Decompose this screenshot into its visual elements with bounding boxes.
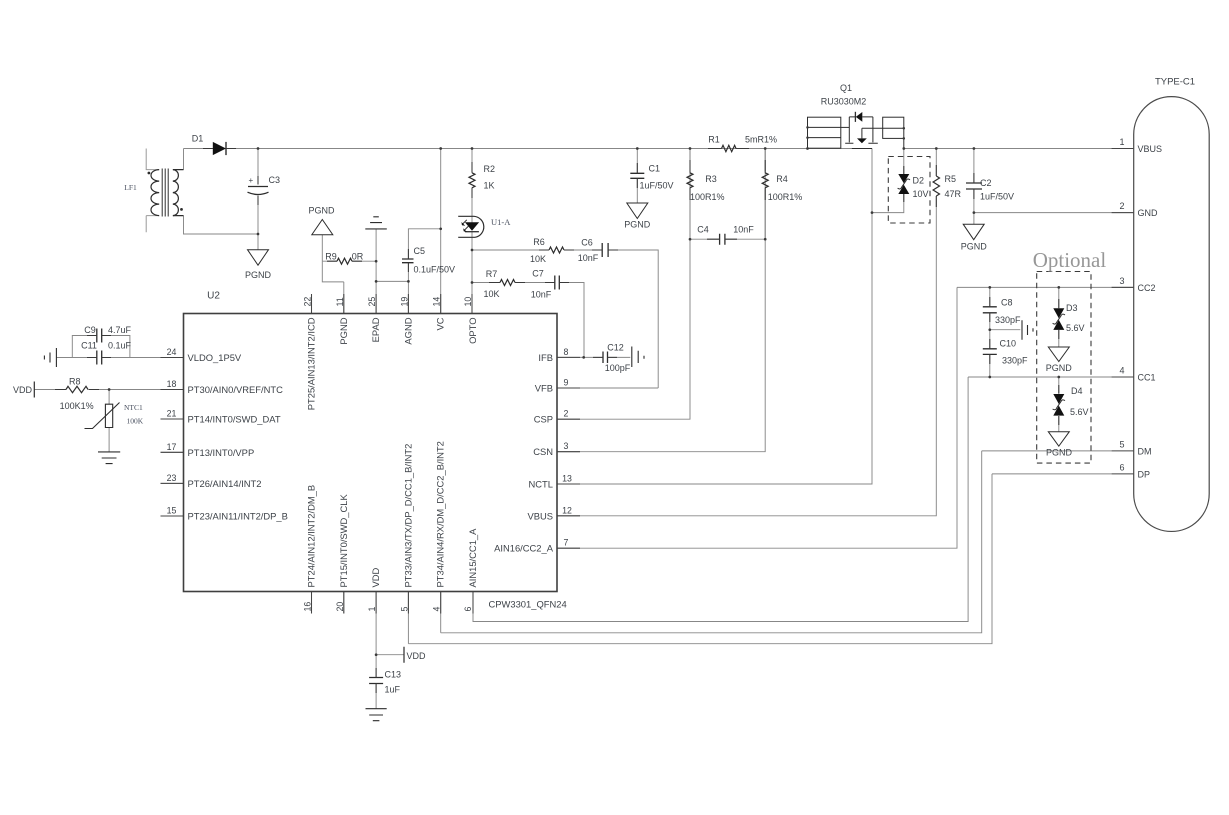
svg-text:8: 8: [564, 347, 569, 357]
svg-text:C8: C8: [1001, 298, 1013, 308]
svg-text:PT30/AIN0/VREF/NTC: PT30/AIN0/VREF/NTC: [188, 384, 284, 395]
svg-text:AGND: AGND: [402, 317, 413, 344]
svg-text:AIN16/CC2_A: AIN16/CC2_A: [494, 543, 554, 554]
svg-text:VDD: VDD: [13, 385, 33, 395]
svg-text:47R: 47R: [945, 189, 962, 199]
svg-text:CC1: CC1: [1138, 373, 1156, 383]
svg-text:Q1: Q1: [840, 83, 852, 93]
svg-text:PT26/AIN14/INT2: PT26/AIN14/INT2: [188, 478, 262, 489]
svg-text:5mR1%: 5mR1%: [745, 135, 777, 145]
svg-text:18: 18: [167, 379, 177, 389]
svg-text:NCTL: NCTL: [529, 479, 553, 490]
svg-text:1uF/50V: 1uF/50V: [640, 181, 674, 191]
svg-text:C2: C2: [980, 178, 992, 188]
svg-text:PGND: PGND: [308, 206, 335, 216]
svg-text:IFB: IFB: [538, 352, 553, 363]
svg-text:10K: 10K: [530, 254, 546, 264]
svg-text:D2: D2: [913, 176, 925, 186]
svg-text:R5: R5: [945, 174, 957, 184]
svg-text:10nF: 10nF: [733, 225, 754, 235]
svg-text:CSP: CSP: [534, 414, 553, 425]
svg-text:D1: D1: [192, 134, 204, 144]
svg-text:R1: R1: [708, 135, 720, 145]
svg-text:D4: D4: [1071, 386, 1083, 396]
svg-text:PT34/AIN4/RX/DM_D/CC2_B/INT2: PT34/AIN4/RX/DM_D/CC2_B/INT2: [435, 441, 446, 587]
svg-text:100R1%: 100R1%: [690, 192, 725, 202]
svg-text:LF1: LF1: [124, 183, 137, 192]
svg-text:C9: C9: [84, 325, 96, 335]
svg-text:330pF: 330pF: [995, 315, 1021, 325]
svg-text:20: 20: [335, 602, 345, 612]
svg-text:PT14/INT0/SWD_DAT: PT14/INT0/SWD_DAT: [188, 414, 281, 425]
svg-text:10K: 10K: [483, 289, 499, 299]
svg-text:4: 4: [1119, 366, 1124, 376]
svg-text:23: 23: [167, 473, 177, 483]
svg-text:16: 16: [303, 602, 313, 612]
svg-text:VDD: VDD: [407, 651, 427, 661]
svg-text:21: 21: [167, 409, 177, 419]
svg-text:C1: C1: [649, 164, 661, 174]
svg-text:PGND: PGND: [1046, 363, 1073, 373]
svg-text:1uF/50V: 1uF/50V: [980, 192, 1014, 202]
svg-text:R2: R2: [484, 164, 496, 174]
svg-text:C7: C7: [532, 269, 544, 279]
svg-text:10V: 10V: [913, 189, 929, 199]
svg-text:100K1%: 100K1%: [60, 401, 94, 411]
svg-text:PGND: PGND: [624, 220, 651, 230]
svg-text:R4: R4: [776, 174, 788, 184]
svg-text:PT33/AIN3/TX/DP_D/CC1_B/INT2: PT33/AIN3/TX/DP_D/CC1_B/INT2: [402, 444, 413, 588]
svg-text:Optional: Optional: [1033, 248, 1107, 272]
svg-text:0R: 0R: [352, 251, 364, 261]
svg-text:OPTO: OPTO: [467, 318, 478, 344]
svg-text:VBUS: VBUS: [1138, 144, 1163, 154]
svg-text:PGND: PGND: [338, 317, 349, 344]
svg-text:5: 5: [399, 607, 409, 612]
svg-text:PT13/INT0/VPP: PT13/INT0/VPP: [188, 447, 255, 458]
svg-text:DP: DP: [1138, 469, 1151, 479]
svg-text:TYPE-C1: TYPE-C1: [1155, 77, 1195, 88]
svg-text:0.1uF/50V: 0.1uF/50V: [414, 265, 456, 275]
svg-text:R3: R3: [705, 174, 717, 184]
svg-text:C6: C6: [581, 238, 593, 248]
svg-text:D3: D3: [1066, 303, 1078, 313]
svg-text:R8: R8: [69, 377, 81, 387]
svg-text:100K: 100K: [127, 417, 144, 426]
svg-text:5: 5: [1119, 439, 1124, 449]
svg-text:6: 6: [1119, 462, 1124, 472]
svg-text:4: 4: [432, 607, 442, 612]
svg-text:PGND: PGND: [1046, 448, 1073, 458]
svg-text:5.6V: 5.6V: [1070, 407, 1089, 417]
svg-text:VBUS: VBUS: [527, 510, 553, 521]
svg-text:1K: 1K: [484, 181, 495, 191]
svg-text:100R1%: 100R1%: [768, 192, 803, 202]
svg-text:7: 7: [564, 538, 569, 548]
svg-text:C3: C3: [269, 175, 281, 185]
svg-text:5.6V: 5.6V: [1066, 323, 1085, 333]
svg-text:10nF: 10nF: [531, 290, 552, 300]
svg-text:3: 3: [1119, 276, 1124, 286]
svg-text:C4: C4: [697, 225, 709, 235]
svg-text:19: 19: [399, 297, 409, 307]
svg-text:PGND: PGND: [245, 270, 272, 280]
svg-text:100pF: 100pF: [605, 363, 631, 373]
svg-text:22: 22: [303, 297, 313, 307]
svg-text:12: 12: [562, 505, 572, 515]
svg-text:R7: R7: [486, 269, 498, 279]
svg-text:6: 6: [463, 607, 473, 612]
svg-text:DM: DM: [1138, 446, 1152, 456]
svg-text:CC2: CC2: [1138, 283, 1156, 293]
svg-text:CPW3301_QFN24: CPW3301_QFN24: [489, 599, 567, 610]
svg-text:4.7uF: 4.7uF: [108, 325, 132, 335]
svg-text:25: 25: [367, 297, 377, 307]
svg-text:C11: C11: [81, 341, 97, 351]
svg-text:R6: R6: [533, 237, 545, 247]
svg-text:11: 11: [335, 297, 345, 306]
svg-text:VFB: VFB: [535, 383, 553, 394]
svg-text:330pF: 330pF: [1002, 356, 1028, 366]
svg-text:EPAD: EPAD: [370, 317, 381, 342]
svg-text:3: 3: [564, 441, 569, 451]
svg-text:C13: C13: [385, 670, 402, 680]
svg-text:9: 9: [564, 378, 569, 388]
svg-text:2: 2: [1119, 201, 1124, 211]
svg-text:1: 1: [1119, 137, 1124, 147]
svg-text:17: 17: [167, 442, 177, 452]
svg-text:CSN: CSN: [533, 446, 553, 457]
svg-text:PGND: PGND: [961, 242, 988, 252]
svg-text:GND: GND: [1138, 208, 1159, 218]
svg-text:RU3030M2: RU3030M2: [821, 97, 867, 107]
svg-text:NTC1: NTC1: [124, 403, 143, 412]
svg-text:13: 13: [562, 474, 572, 484]
svg-text:10nF: 10nF: [578, 253, 599, 263]
svg-text:VC: VC: [435, 317, 446, 330]
svg-text:2: 2: [564, 409, 569, 419]
svg-text:C12: C12: [607, 343, 624, 353]
svg-text:C10: C10: [1000, 339, 1017, 349]
svg-text:VDD: VDD: [370, 567, 381, 587]
svg-text:U2: U2: [207, 291, 220, 302]
svg-text:10: 10: [463, 297, 473, 307]
svg-text:C5: C5: [414, 246, 426, 256]
svg-text:0.1uF: 0.1uF: [108, 341, 132, 351]
svg-text:15: 15: [167, 506, 177, 516]
svg-text:1: 1: [367, 607, 377, 612]
svg-text:24: 24: [167, 347, 177, 357]
svg-text:U1-A: U1-A: [491, 217, 511, 227]
svg-text:R9: R9: [325, 251, 337, 261]
svg-text:+: +: [249, 176, 254, 185]
svg-text:1uF: 1uF: [385, 685, 401, 695]
svg-text:PT15/INT0/SWD_CLK: PT15/INT0/SWD_CLK: [338, 493, 349, 587]
svg-text:PT24/AIN12/INT2/DM_B: PT24/AIN12/INT2/DM_B: [306, 485, 317, 588]
svg-text:PT23/AIN11/INT2/DP_B: PT23/AIN11/INT2/DP_B: [188, 511, 288, 522]
svg-text:AIN15/CC1_A: AIN15/CC1_A: [467, 528, 478, 588]
svg-text:14: 14: [432, 297, 442, 307]
svg-text:PT25/AIN13/INT2/ICD: PT25/AIN13/INT2/ICD: [306, 317, 317, 410]
svg-text:VLDO_1P5V: VLDO_1P5V: [188, 352, 242, 363]
